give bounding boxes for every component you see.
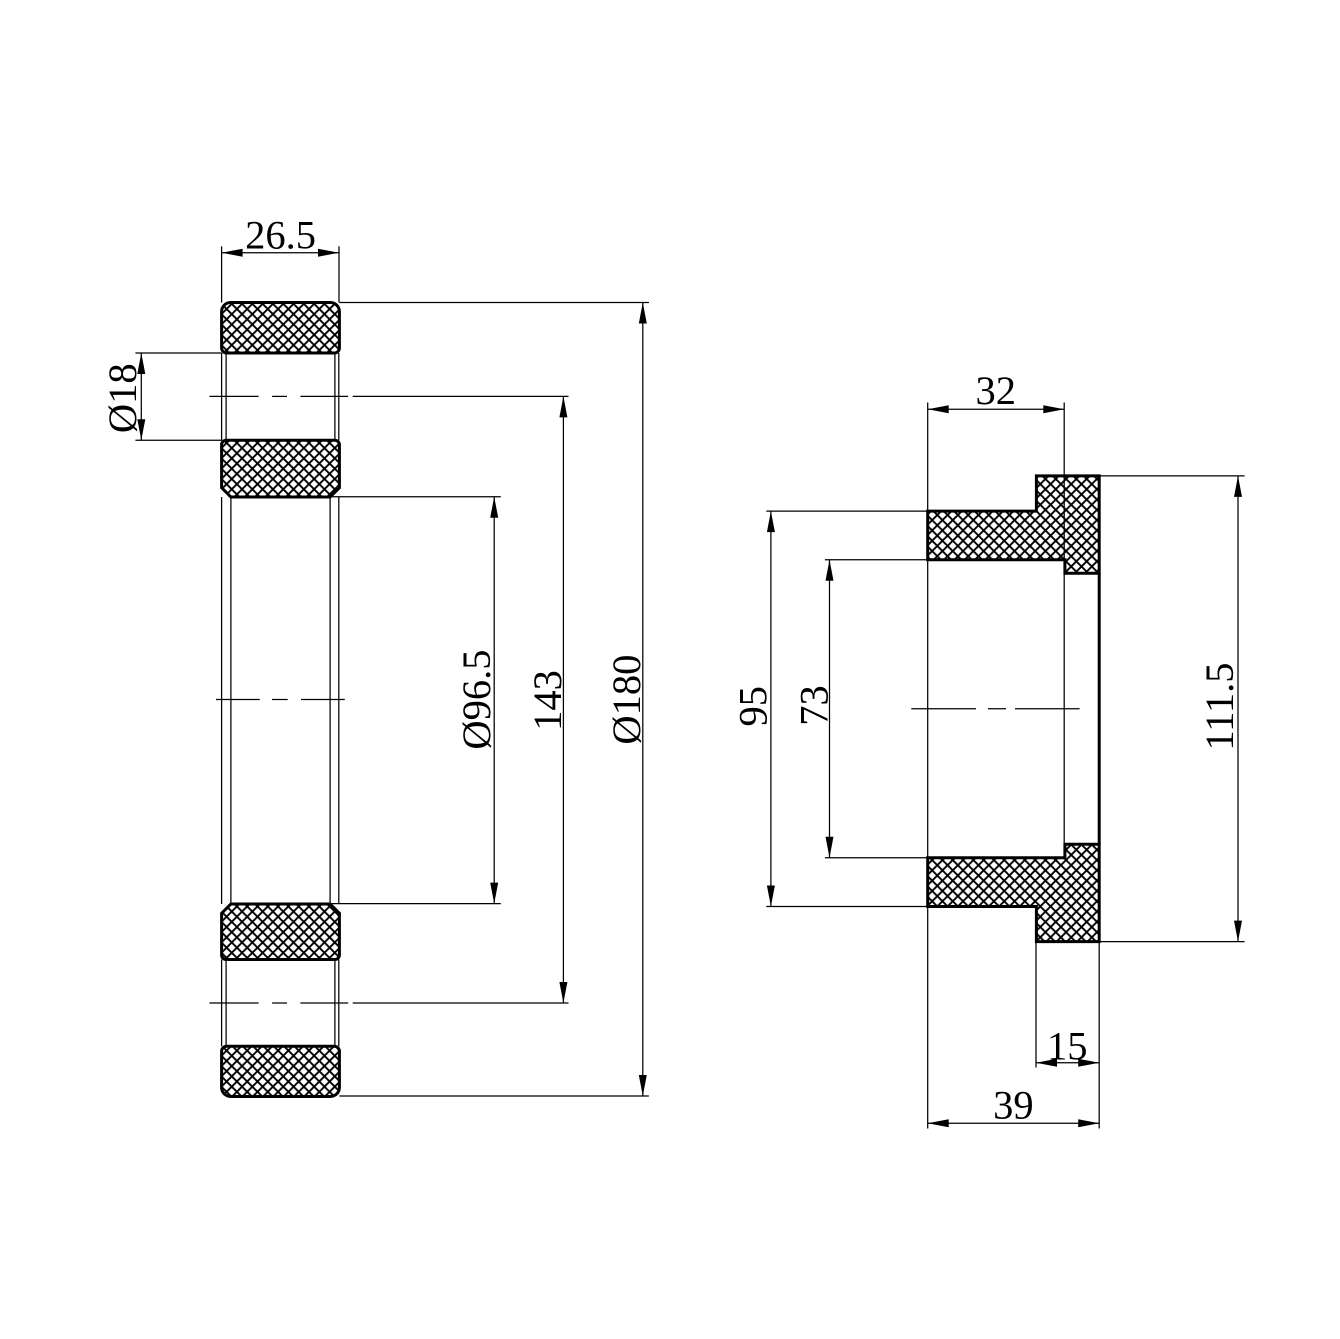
dimension Ø180 bbox=[339, 303, 649, 1097]
svg-text:95: 95 bbox=[731, 686, 776, 727]
dimension 32 bbox=[928, 403, 1065, 512]
tire section block B3 (lower middle, hatched, chamfered top) bbox=[222, 904, 340, 960]
svg-text:111.5: 111.5 bbox=[1197, 662, 1242, 750]
svg-text:15: 15 bbox=[1047, 1023, 1088, 1068]
dimension 39 bbox=[928, 907, 1099, 1129]
svg-text:32: 32 bbox=[975, 368, 1016, 413]
centerline CL2 (bottom bore axis) bbox=[209, 1002, 568, 1004]
gap2 rim wall lines (between B2 and B3) bbox=[222, 497, 339, 904]
tire section block B2 (upper middle, hatched, chamfered bottom) bbox=[222, 440, 340, 497]
dimension 26.5 bbox=[222, 246, 339, 302]
hub axis centerline bbox=[911, 708, 1079, 710]
flange disc left edge bbox=[927, 560, 929, 858]
svg-text:143: 143 bbox=[525, 670, 570, 731]
svg-text:39: 39 bbox=[993, 1082, 1034, 1127]
dimension 15 bbox=[1036, 942, 1099, 1068]
dimension 111.5 bbox=[1099, 476, 1244, 942]
svg-text:26.5: 26.5 bbox=[245, 213, 316, 258]
dimension 73 bbox=[825, 560, 928, 858]
hub outer right edge bbox=[1098, 573, 1101, 844]
tire section block B4 (bottom, hatched) bbox=[222, 1046, 340, 1096]
hub flange bottom section (hatched) bbox=[928, 844, 1099, 941]
svg-text:Ø180: Ø180 bbox=[604, 655, 649, 745]
centerline wheel axis bbox=[216, 699, 345, 701]
dimension 95 bbox=[766, 511, 927, 906]
svg-text:Ø18: Ø18 bbox=[100, 363, 145, 433]
gap1 bore wall lines (between B1 and B2) bbox=[222, 353, 339, 440]
tire section block B1 (top, hatched) bbox=[222, 303, 340, 354]
dimension 143 bbox=[562, 396, 564, 1003]
dimension Ø18 bbox=[135, 353, 221, 440]
gap3 bore wall lines (between B3 and B4) bbox=[222, 960, 339, 1047]
hub flange top section (hatched) bbox=[928, 476, 1099, 573]
centerline CL1 (top bore axis) bbox=[209, 395, 568, 397]
svg-text:Ø96.5: Ø96.5 bbox=[454, 650, 499, 750]
dimension Ø96.5 bbox=[329, 497, 501, 904]
hub bore edge bbox=[1063, 403, 1065, 845]
svg-text:73: 73 bbox=[792, 685, 837, 726]
